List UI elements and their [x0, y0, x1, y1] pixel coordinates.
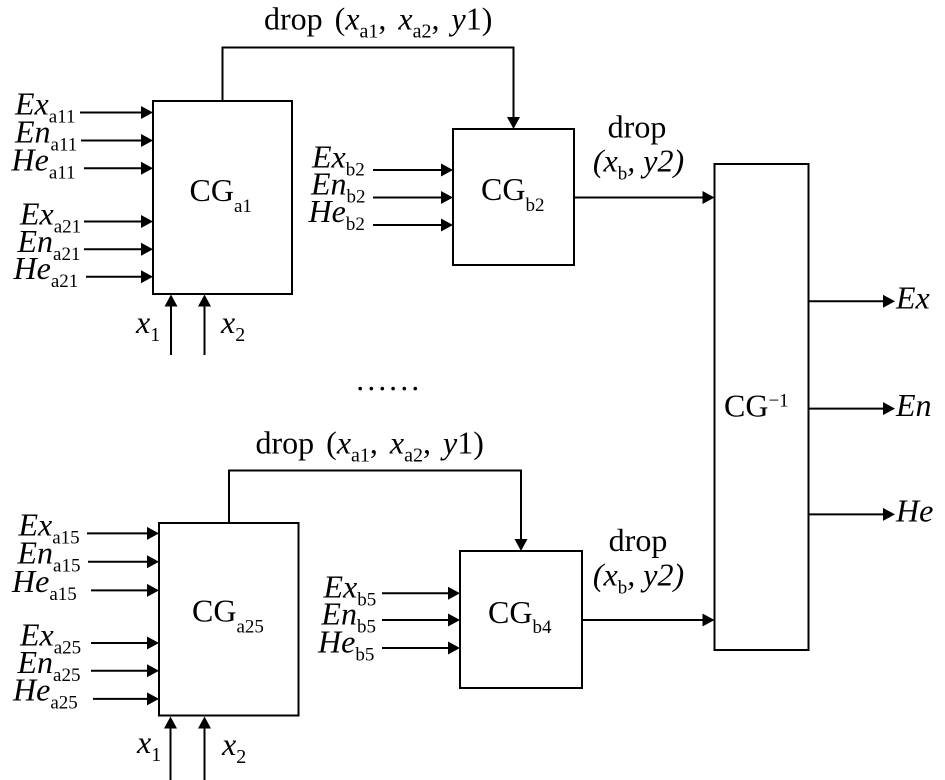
wire x2 input arrow (top section) [198, 295, 211, 356]
svg-text:x2: x2 [221, 726, 246, 768]
wire En_a11 input arrow [81, 134, 153, 147]
svg-text:En: En [895, 387, 932, 423]
wire x2 input arrow (bottom section) [198, 717, 211, 780]
wire drop output CG_b4 to CG inverse [582, 614, 715, 627]
wire Ex_a21 input arrow [84, 215, 153, 228]
box CG_a25 [159, 523, 299, 716]
wire En_a21 input arrow [84, 243, 153, 256]
svg-text:CGa25: CGa25 [192, 593, 264, 638]
wire En_a25 input arrow [91, 664, 159, 677]
box CG_a1 [153, 101, 292, 294]
wire He_b5 input arrow [382, 642, 460, 655]
wire En_a15 input arrow [88, 555, 159, 568]
wire x1 input arrow (top section) [165, 295, 178, 356]
wire He_a11 input arrow [84, 162, 153, 175]
wire output Ex [809, 295, 896, 308]
wire drop feed CG_a1 to CG_b2 [223, 48, 521, 130]
svg-text:drop: drop [609, 522, 668, 558]
wire drop output CG_b2 to CG inverse [574, 191, 715, 204]
wire En_b2 input arrow [373, 191, 453, 204]
wire Ex_a15 input arrow [87, 527, 159, 540]
svg-text:x2: x2 [220, 304, 245, 346]
wire He_b2 input arrow [373, 219, 453, 232]
svg-text:x1: x1 [136, 724, 161, 766]
svg-text:Ex: Ex [895, 280, 930, 316]
svg-text:He: He [895, 493, 933, 529]
box CG inverse [715, 164, 809, 650]
wire Ex_a25 input arrow [91, 637, 159, 650]
svg-text:drop (xa1, xa2, y1): drop (xa1, xa2, y1) [256, 425, 484, 467]
svg-text:CGb2: CGb2 [481, 171, 544, 216]
box CG_b2 [453, 129, 574, 265]
box CG_b4 [460, 551, 582, 688]
wire Ex_b2 input arrow [373, 164, 453, 177]
wire He_a21 input arrow [86, 270, 153, 283]
svg-text:drop: drop [608, 109, 667, 145]
wire Ex_a11 input arrow [80, 106, 153, 119]
wire Ex_b5 input arrow [382, 587, 460, 600]
svg-text:CGa1: CGa1 [190, 172, 252, 217]
svg-text:(xb, y2): (xb, y2) [593, 143, 684, 185]
wire x1 input arrow (bottom section) [164, 717, 177, 780]
wire output En [809, 402, 896, 415]
wire drop feed CG_a25 to CG_b4 [229, 471, 528, 552]
svg-text:drop (xa1, xa2, y1): drop (xa1, xa2, y1) [264, 1, 492, 43]
wire He_a15 input arrow [91, 584, 159, 597]
wire He_a25 input arrow [93, 692, 159, 705]
svg-text:(xb, y2): (xb, y2) [593, 557, 684, 599]
svg-text:CG−1: CG−1 [724, 388, 789, 424]
ellipsis dots [358, 387, 417, 391]
svg-text:CGb4: CGb4 [488, 594, 552, 638]
wire En_b5 input arrow [382, 614, 460, 627]
svg-text:x1: x1 [135, 304, 160, 346]
wire output He [809, 508, 896, 521]
